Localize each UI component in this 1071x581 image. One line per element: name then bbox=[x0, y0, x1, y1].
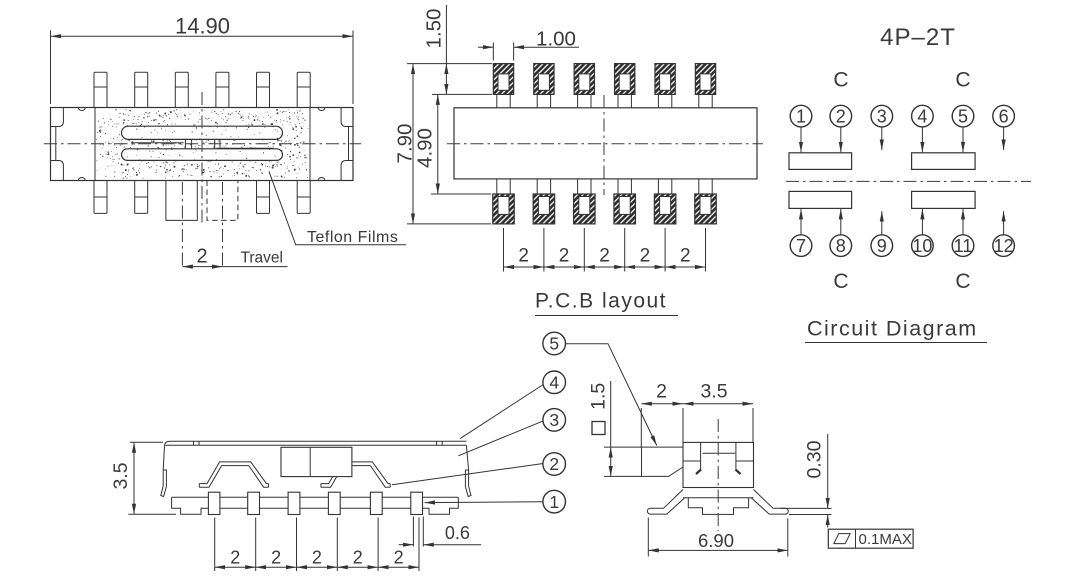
body right edge bbox=[466, 445, 468, 470]
horizontal centerline PCB bbox=[447, 143, 763, 145]
balloon label 5 bbox=[543, 332, 566, 355]
PCB pad 5 (top row, hatched) bbox=[655, 64, 675, 95]
svg-text:2: 2 bbox=[230, 548, 240, 568]
svg-text:4: 4 bbox=[549, 373, 559, 393]
svg-text:P.C.B layout: P.C.B layout bbox=[535, 290, 667, 313]
svg-text:2: 2 bbox=[559, 246, 570, 267]
extension line pad top bbox=[407, 63, 492, 65]
svg-text:2: 2 bbox=[271, 548, 281, 568]
label Circuit Diagram bbox=[805, 317, 987, 343]
svg-text:5: 5 bbox=[958, 106, 968, 126]
dimension 2 (PCB pitch 3) bbox=[584, 246, 624, 268]
PCB pad 8 (bottom row, hatched) bbox=[533, 194, 555, 224]
svg-text:14.90: 14.90 bbox=[175, 14, 230, 39]
extension line bottom pad outer bbox=[407, 223, 491, 225]
vertical centerline PCB bbox=[603, 95, 605, 195]
side view terminal 1 bbox=[208, 492, 220, 514]
contact bar lines between slots bbox=[131, 143, 273, 149]
leader balloon 3 bbox=[458, 421, 543, 456]
extension lines for 2mm pitch (PCB) bbox=[504, 228, 706, 272]
balloon label 4 bbox=[543, 371, 566, 394]
slider lever bbox=[642, 447, 684, 476]
wire pin 12 to contact bbox=[1003, 211, 1005, 234]
lid underside line bbox=[166, 444, 467, 446]
extension lines for 2mm pitch (side view) bbox=[215, 518, 419, 572]
svg-text:8: 8 bbox=[836, 236, 846, 256]
PCB pad 1 (top row, hatched) bbox=[493, 64, 513, 95]
lid tab marks bbox=[194, 441, 443, 445]
svg-text:Circuit Diagram: Circuit Diagram bbox=[807, 317, 978, 341]
PCB pad 9 (bottom row, hatched) bbox=[574, 194, 596, 224]
svg-text:6: 6 bbox=[999, 106, 1009, 126]
wire pin 9 bottom bbox=[578, 179, 591, 194]
wire pin 10 to contact bbox=[921, 209, 923, 235]
PCB pad 2 (top row, hatched) bbox=[534, 64, 554, 95]
PCB pad 11 (bottom row, hatched) bbox=[654, 194, 676, 224]
top view right end cap separation bbox=[309, 108, 311, 181]
wire pin 5 top bbox=[658, 94, 671, 107]
slider block bbox=[281, 447, 352, 476]
circuit pin 6 terminal circle bbox=[993, 105, 1015, 127]
centerline circuit diagram bbox=[786, 180, 1031, 182]
leader balloon 1 bbox=[425, 501, 543, 504]
wire pin 10 bottom bbox=[618, 179, 631, 194]
dimension 2 (side pitch 4) bbox=[337, 548, 378, 568]
contact spring left bbox=[199, 462, 268, 487]
base strip bbox=[172, 497, 459, 514]
circuit pin 3 terminal circle bbox=[871, 105, 893, 127]
balloon label 3 bbox=[543, 409, 566, 432]
leader balloon 4 bbox=[460, 385, 543, 439]
top view pin 12 (bottom row) bbox=[94, 181, 107, 214]
dimension 1.00 bbox=[478, 27, 579, 60]
dimension 6.90 bbox=[648, 518, 788, 557]
upper slot bbox=[122, 126, 283, 139]
svg-text:6.90: 6.90 bbox=[698, 530, 734, 551]
right latch hook bbox=[465, 470, 471, 497]
circuit pin 2 terminal circle bbox=[830, 105, 852, 127]
wire pin 1 to contact bbox=[800, 127, 802, 152]
body left edge bbox=[163, 445, 164, 470]
dimension 7.90 bbox=[394, 64, 417, 224]
circuit pin 10 terminal circle bbox=[912, 235, 934, 257]
svg-text:3: 3 bbox=[549, 410, 559, 430]
circuit pin 4 terminal circle bbox=[912, 105, 934, 127]
dimension 3.5 bbox=[110, 442, 176, 514]
circuit pin 1 terminal circle bbox=[790, 105, 812, 127]
top view pin 1 (top row) bbox=[94, 72, 107, 107]
base plate line bbox=[683, 497, 754, 499]
top view right end notch bbox=[341, 108, 353, 181]
leader balloon 5 bbox=[565, 344, 656, 446]
leader balloon 2 bbox=[392, 464, 543, 485]
dimension 0.30 bbox=[780, 434, 832, 528]
inner wall right bbox=[735, 442, 737, 470]
svg-text:9: 9 bbox=[877, 236, 887, 256]
svg-text:3: 3 bbox=[877, 106, 887, 126]
gull-wing leg right bbox=[751, 490, 788, 515]
svg-text:C: C bbox=[833, 69, 848, 92]
edge notch top-right bbox=[318, 108, 325, 111]
wire pin 8 bottom bbox=[537, 179, 550, 194]
balloon label 1 bbox=[543, 490, 566, 513]
svg-text:2: 2 bbox=[518, 246, 529, 267]
vertical centerline top view bbox=[201, 92, 203, 224]
wire pin 4 top bbox=[618, 94, 631, 107]
inner step left bbox=[683, 460, 701, 462]
svg-text:C: C bbox=[955, 69, 970, 92]
svg-text:C: C bbox=[833, 270, 848, 293]
wire pin 7 to contact bbox=[800, 209, 802, 235]
svg-text:10: 10 bbox=[912, 236, 932, 256]
edge notch bottom-left bbox=[78, 178, 85, 181]
extension line bottom pad inner bbox=[431, 193, 491, 195]
top view left end notch bbox=[51, 108, 64, 181]
top view pin 11 (bottom row) bbox=[135, 181, 148, 214]
dimension 4.90 bbox=[414, 94, 438, 194]
svg-text:1.5: 1.5 bbox=[588, 383, 610, 410]
edge notch bottom-right bbox=[318, 178, 325, 181]
side view terminal 3 bbox=[288, 492, 300, 514]
svg-text:2: 2 bbox=[312, 548, 322, 568]
contact bar lower-right bbox=[912, 191, 976, 208]
top view body outline bbox=[51, 108, 354, 181]
dimension 2 (side pitch 2) bbox=[256, 548, 297, 568]
circuit pin 5 terminal circle bbox=[952, 105, 974, 127]
top view pin 4 (top row) bbox=[216, 72, 229, 107]
svg-text:0.30: 0.30 bbox=[804, 440, 826, 478]
PCB pad 12 (bottom row, hatched) bbox=[695, 194, 717, 224]
contact tick marks bbox=[185, 140, 220, 149]
end view body block bbox=[683, 442, 754, 487]
contact hook left bbox=[696, 470, 701, 475]
svg-text:2: 2 bbox=[196, 246, 207, 268]
wire pin 8 to contact bbox=[840, 209, 842, 235]
dimension 2 (side pitch 1) bbox=[215, 548, 256, 568]
dimension 3.5 (body width) bbox=[683, 381, 753, 443]
balloon label 2 bbox=[543, 453, 566, 476]
actuator stub dashed (position B) bbox=[207, 181, 238, 221]
side view terminal 5 bbox=[370, 492, 382, 514]
contact bar lower-left bbox=[789, 191, 852, 208]
circuit pin 11 terminal circle bbox=[952, 235, 974, 257]
wire pin 9 to contact bbox=[881, 211, 883, 234]
dimension 2 (PCB pitch 1) bbox=[504, 246, 544, 268]
circuit pin 7 terminal circle bbox=[790, 235, 812, 257]
svg-text:4.90: 4.90 bbox=[414, 128, 437, 168]
svg-text:0.6: 0.6 bbox=[445, 523, 470, 543]
circuit pin 9 terminal circle bbox=[871, 235, 893, 257]
svg-text:7: 7 bbox=[796, 236, 806, 256]
contact spring right bbox=[321, 462, 390, 487]
top view pin 2 (top row) bbox=[135, 72, 148, 107]
top view pin 5 (top row) bbox=[257, 72, 270, 107]
travel centerline B bbox=[222, 182, 224, 267]
contact bar upper-left bbox=[789, 153, 852, 170]
dimension square 1.5 bbox=[588, 381, 642, 476]
wire pin 11 to contact bbox=[962, 209, 964, 235]
stipple texture body fill bbox=[96, 109, 308, 179]
dimension 2 (PCB pitch 2) bbox=[544, 246, 584, 268]
PCB pad 3 (top row, hatched) bbox=[574, 64, 594, 95]
svg-text:4: 4 bbox=[917, 106, 927, 126]
dimension 14.90 bbox=[51, 14, 354, 105]
dimension 2 (lever) bbox=[641, 381, 683, 448]
inner wall left bbox=[700, 442, 702, 470]
contact hook right bbox=[736, 470, 741, 475]
top view pin 6 (top row) bbox=[297, 72, 310, 107]
svg-text:4P–2T: 4P–2T bbox=[880, 24, 956, 51]
svg-text:2: 2 bbox=[394, 548, 404, 568]
dimension 2 (side pitch 5) bbox=[378, 548, 419, 568]
label P.C.B layout bbox=[535, 290, 678, 316]
svg-text:2: 2 bbox=[599, 246, 610, 267]
wire pin 6 to contact bbox=[1003, 127, 1005, 150]
svg-text:5: 5 bbox=[549, 334, 559, 354]
wire pin 11 bottom bbox=[658, 179, 671, 194]
inner step right bbox=[736, 460, 754, 462]
vertical centerline end view bbox=[717, 419, 719, 531]
svg-text:1.50: 1.50 bbox=[423, 9, 446, 49]
side view terminal 4 bbox=[328, 492, 340, 514]
svg-text:3.5: 3.5 bbox=[700, 381, 727, 403]
svg-text:C: C bbox=[955, 270, 970, 293]
wire pin 5 to contact bbox=[962, 127, 964, 152]
top view left end cap separation bbox=[94, 108, 96, 181]
wire pin 6 top bbox=[699, 94, 712, 107]
svg-text:11: 11 bbox=[954, 236, 973, 256]
wire pin 2 top bbox=[537, 94, 550, 107]
edge notch top-left bbox=[78, 108, 85, 111]
wire pin 12 bottom bbox=[699, 179, 712, 194]
svg-text:2: 2 bbox=[836, 106, 846, 126]
dimension 2 (PCB pitch 4) bbox=[625, 246, 665, 268]
side view terminal 2 bbox=[248, 492, 260, 514]
dimension 2 travel bbox=[182, 246, 222, 268]
lower slot bbox=[122, 149, 283, 161]
inner bridge bbox=[703, 452, 736, 454]
PCB pad 7 (bottom row, hatched) bbox=[493, 194, 515, 224]
label Travel bbox=[223, 250, 288, 267]
svg-text:1: 1 bbox=[549, 492, 559, 512]
circuit pin 8 terminal circle bbox=[830, 235, 852, 257]
extension line pad bottom bbox=[432, 93, 492, 95]
actuator stub solid (position A) bbox=[166, 181, 197, 221]
svg-text:1: 1 bbox=[796, 106, 806, 126]
wire pin 4 to contact bbox=[921, 127, 923, 152]
PCB pad 6 (top row, hatched) bbox=[695, 64, 715, 95]
side view terminal 6 bbox=[411, 492, 423, 514]
bottom tray and tab bbox=[688, 498, 748, 515]
svg-text:1.00: 1.00 bbox=[536, 27, 576, 50]
circuit pin 12 terminal circle bbox=[993, 235, 1015, 257]
svg-text:Travel: Travel bbox=[241, 250, 284, 267]
dimension 1.50 bbox=[423, 5, 447, 94]
horizontal centerline top view bbox=[44, 143, 361, 145]
left latch hook bbox=[161, 470, 167, 497]
wire pin 3 top bbox=[578, 94, 591, 107]
svg-text:Teflon Films: Teflon Films bbox=[307, 229, 398, 246]
svg-text:2: 2 bbox=[656, 381, 667, 403]
wire pin 7 bottom bbox=[497, 179, 510, 194]
svg-text:2: 2 bbox=[680, 246, 691, 267]
wire pin 3 to contact bbox=[881, 127, 883, 150]
top view pin 3 (top row) bbox=[175, 72, 188, 107]
contact bar upper-right bbox=[912, 153, 976, 170]
gull-wing leg left bbox=[647, 490, 684, 515]
flatness feature control frame 0.1MAX bbox=[828, 529, 913, 548]
dimension 2 (side pitch 3) bbox=[297, 548, 338, 568]
svg-text:12: 12 bbox=[994, 236, 1014, 256]
svg-text:0.1MAX: 0.1MAX bbox=[859, 531, 912, 548]
travel centerline A bbox=[181, 182, 183, 267]
svg-text:2: 2 bbox=[640, 246, 651, 267]
top view pin 7 (bottom row) bbox=[297, 181, 310, 214]
wire pin 2 to contact bbox=[840, 127, 842, 152]
dimension 2 (PCB pitch 5) bbox=[665, 246, 705, 268]
PCB body rectangle bbox=[454, 108, 757, 179]
lid top line bbox=[165, 441, 467, 446]
svg-text:3.5: 3.5 bbox=[110, 462, 132, 489]
PCB pad 10 (bottom row, hatched) bbox=[614, 194, 636, 224]
svg-text:2: 2 bbox=[353, 548, 363, 568]
label Teflon Films with leader bbox=[269, 171, 406, 246]
wire pin 1 top bbox=[497, 94, 510, 107]
top view pin 8 (bottom row) bbox=[257, 181, 270, 214]
PCB pad 4 (top row, hatched) bbox=[615, 64, 635, 95]
dimension 0.6 bbox=[399, 517, 482, 547]
svg-text:2: 2 bbox=[549, 454, 559, 474]
